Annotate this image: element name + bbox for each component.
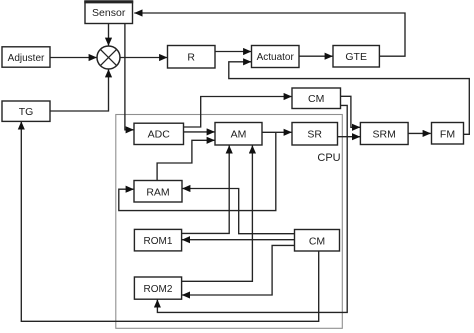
block Sensor: [84, 1, 133, 23]
wire CM to SRM: [341, 96, 361, 127]
wire AM branch to RAM: [119, 132, 276, 210]
block TG: [2, 101, 50, 121]
block R: [168, 46, 216, 69]
wire comparator to R: [120, 57, 167, 59]
block Adjuster: [2, 47, 50, 67]
wire CM to ROM2: [157, 105, 347, 312]
svg-text:GTE: GTE: [345, 51, 367, 63]
wire ADC to CM: [184, 97, 292, 128]
comparator circle: [97, 46, 120, 69]
svg-text:ROM1: ROM1: [144, 236, 173, 247]
wire CM2 to ROM1: [182, 239, 295, 241]
svg-text:Sensor: Sensor: [92, 7, 126, 19]
svg-text:CPU: CPU: [317, 152, 340, 164]
block RAM: [134, 181, 182, 203]
svg-text:R: R: [187, 51, 195, 63]
block AM: [215, 123, 262, 146]
block CM (upper): [292, 88, 341, 109]
svg-text:CM: CM: [309, 235, 325, 247]
wire GTE feedback to Sensor: [134, 13, 405, 56]
wire AM to SR: [262, 131, 292, 133]
svg-text:SRM: SRM: [373, 129, 396, 141]
wire Sensor to ADC: [125, 24, 134, 130]
svg-text:AM: AM: [231, 129, 247, 141]
block ADC: [134, 123, 184, 144]
wire ADC to AM: [184, 131, 215, 133]
wire Sensor to comparator: [108, 24, 110, 46]
wire Actuator to GTE: [299, 55, 333, 57]
svg-text:ADC: ADC: [148, 129, 171, 141]
block FM: [432, 123, 464, 145]
svg-text:CM: CM: [308, 93, 324, 105]
svg-text:Actuator: Actuator: [257, 52, 295, 63]
svg-text:Adjuster: Adjuster: [8, 53, 45, 64]
wire CM2 to RAM: [182, 189, 294, 234]
svg-text:RAM: RAM: [146, 186, 169, 198]
svg-text:TG: TG: [19, 106, 34, 118]
block CM (lower): [295, 230, 340, 252]
block Actuator: [252, 46, 300, 68]
wire TG to comparator: [50, 69, 109, 111]
svg-text:ROM2: ROM2: [144, 284, 173, 295]
block ROM1: [134, 229, 181, 251]
svg-text:FM: FM: [440, 128, 455, 140]
wire Adjuster to comparator: [50, 57, 97, 59]
wire FM feedback to Actuator: [229, 62, 469, 135]
wire RAM to AM: [157, 140, 215, 180]
block SRM: [360, 123, 408, 145]
block SR: [292, 123, 338, 146]
enclosure rectangle (controller): [116, 115, 342, 329]
wire CM2 to ROM2: [182, 245, 295, 295]
wire SRM to FM: [408, 132, 431, 134]
svg-text:SR: SR: [307, 129, 322, 141]
wire ROM1 to AM: [182, 145, 230, 233]
block ROM2: [134, 277, 181, 299]
wire SR to SRM: [338, 136, 361, 138]
wire CM2 to TG: [21, 122, 318, 322]
wire R to Actuator: [215, 51, 251, 53]
wire ROM2 to AM: [182, 145, 253, 281]
block GTE: [333, 46, 379, 68]
